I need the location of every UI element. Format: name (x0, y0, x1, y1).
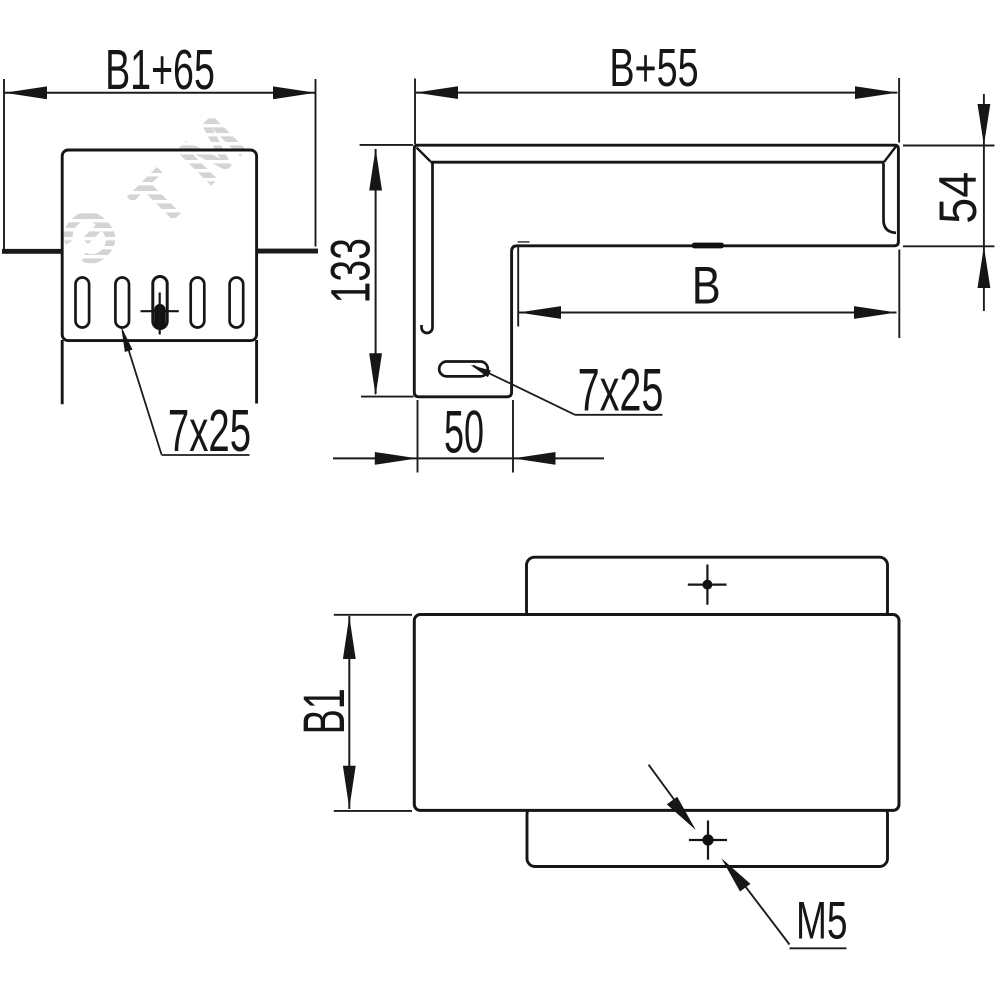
sheet edge line near foot (518, 241, 530, 243)
inner left vertical with rounded end (422, 163, 433, 333)
top flange (527, 557, 888, 619)
extension line 133 top (360, 144, 413, 146)
dimension 133 top arrowhead (up) (369, 149, 382, 191)
slot 5 (230, 278, 244, 328)
bottom hole cross horizontal (689, 839, 727, 841)
dimension B+55 text (609, 37, 698, 97)
dimension 133 line (375, 149, 377, 394)
dimension 54 text (rotated) (928, 172, 987, 224)
dimension B text (692, 256, 721, 315)
svg-text:54: 54 (928, 172, 987, 224)
extension line 54 bottom (903, 245, 995, 247)
dimension 50 line (333, 457, 604, 459)
right bend chamfer (884, 147, 896, 162)
svg-text:B: B (692, 256, 721, 315)
inner right vertical with curl (884, 164, 897, 233)
left leg (61, 340, 64, 404)
foot slot 7x25 (439, 362, 488, 377)
extension line B1 top (334, 614, 412, 616)
extension line 133 bottom (361, 396, 414, 398)
extension line 50 right (512, 400, 514, 473)
dimension B+55 right arrowhead (855, 86, 897, 99)
svg-text:7x25: 7x25 (578, 356, 664, 423)
dimension 50 right arrowhead (points left) (513, 452, 556, 465)
side view outer contour (414, 145, 898, 397)
front view body outline (62, 150, 256, 341)
side leader underline (575, 414, 663, 416)
dimension 50 left arrowhead (points right) (375, 452, 418, 465)
dimension B left arrowhead (519, 306, 562, 319)
dimension 50 text (444, 399, 484, 466)
svg-text:7x25: 7x25 (168, 397, 251, 463)
slot 2 (115, 278, 129, 328)
dimension B+55 left arrowhead (416, 86, 459, 99)
right tab (258, 249, 319, 254)
bottom flange (527, 806, 888, 867)
slot 3 horizontal centerline (141, 310, 179, 312)
dimension B1+65 right arrowhead (273, 86, 316, 99)
M5 upper arrowhead (points down-right) (667, 797, 696, 830)
dimension 54 top arrowhead (down) (978, 104, 991, 145)
extension line B1 bottom (334, 810, 412, 812)
right leg (255, 340, 258, 404)
slot 4 (191, 278, 205, 328)
M5 weld dash on arm bottom (692, 243, 724, 249)
M5 leader underline (790, 947, 847, 949)
svg-text:133: 133 (320, 238, 383, 303)
label 7x25 side view (578, 356, 664, 423)
leader arrowhead at slot 2 (121, 326, 133, 352)
svg-text:B+55: B+55 (609, 37, 698, 97)
extension line right B+55 (898, 78, 900, 143)
left tab (2, 249, 62, 254)
extension line 54 top (903, 145, 995, 147)
top hole dot (702, 580, 712, 590)
dimension 54 line (983, 94, 985, 311)
M5 leader upper segment (649, 765, 681, 809)
extension line 50 left (417, 400, 419, 473)
inner foot vertical / B extension (517, 247, 519, 327)
dimension 54 bottom arrowhead (up) (978, 246, 991, 288)
dimension B right arrowhead (854, 306, 897, 319)
dimension B1 text (rotated) (293, 688, 357, 734)
slot 1 (76, 278, 90, 328)
extension line left of B1+65 (3, 79, 5, 253)
extension line right lower (for B) (898, 250, 900, 339)
slot 3 vertical centerline (159, 293, 161, 335)
dimension 133 text (rotated) (320, 238, 383, 303)
extension line left B+55 (414, 79, 416, 145)
inner top line (431, 161, 885, 164)
dimension B+55 line (416, 92, 898, 94)
dimension B1 line (348, 616, 350, 809)
label 7x25 front view (168, 397, 251, 463)
slot 3 (center) (153, 277, 167, 329)
dimension B1+65 line (5, 92, 316, 94)
svg-text:50: 50 (444, 399, 484, 466)
side leader 7x25 line (473, 366, 575, 415)
dimension B line (519, 312, 897, 314)
main plate rectangle (414, 615, 899, 811)
svg-text:M5: M5 (796, 891, 848, 950)
dimension B1 top arrowhead (up) (343, 616, 356, 659)
dimension B1+65 left arrowhead (5, 86, 48, 99)
side leader arrowhead (471, 365, 491, 377)
bottom hole dot (702, 834, 713, 845)
leader underline 7x25 (162, 454, 250, 456)
svg-text:B1: B1 (293, 688, 357, 734)
M5 leader lower segment (745, 886, 790, 945)
M5 lower arrowhead (points up-left) (721, 858, 750, 891)
dimension B1+65 text (105, 38, 215, 102)
extension line right of B1+65 (315, 79, 317, 247)
top hole cross vertical (706, 565, 708, 605)
dimension B1 bottom arrowhead (down) (343, 766, 356, 809)
slot 3 dark center mark (154, 304, 165, 330)
left bend chamfer (417, 148, 431, 162)
top hole cross horizontal (688, 583, 727, 585)
bottom hole cross vertical (707, 821, 709, 860)
dimension 133 bottom arrowhead (down) (369, 353, 382, 396)
label M5 (796, 891, 848, 950)
leader line to slot 2 (7x25) (123, 332, 162, 455)
